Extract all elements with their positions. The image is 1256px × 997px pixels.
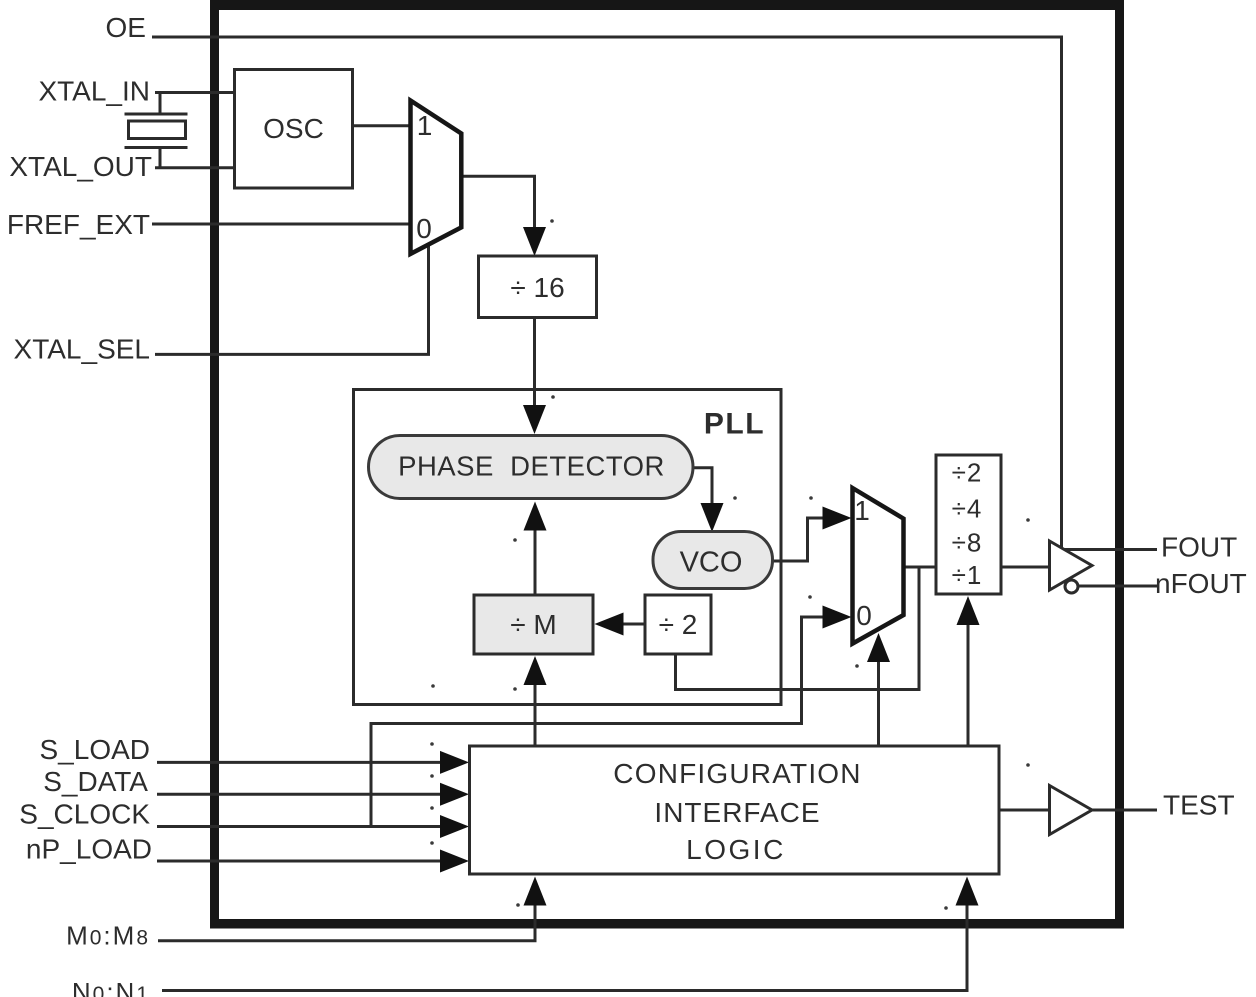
svg-text:÷8: ÷8 (952, 528, 983, 558)
svg-text:÷ 2: ÷ 2 (659, 609, 698, 640)
svg-text:LOGIC: LOGIC (686, 834, 786, 865)
svg-text:INTERFACE: INTERFACE (654, 797, 820, 828)
svg-text:÷4: ÷4 (952, 494, 983, 524)
svg-text:XTAL_SEL: XTAL_SEL (14, 334, 150, 365)
svg-text:nP_LOAD: nP_LOAD (26, 834, 152, 865)
svg-text:S_DATA: S_DATA (43, 766, 148, 797)
svg-text:÷2: ÷2 (952, 458, 983, 488)
svg-text:M0:M8: M0:M8 (66, 921, 150, 951)
svg-text:0: 0 (416, 213, 432, 244)
svg-text:PHASE DETECTOR: PHASE DETECTOR (398, 451, 665, 482)
svg-text:FREF_EXT: FREF_EXT (7, 209, 150, 240)
svg-text:1: 1 (417, 110, 433, 141)
svg-text:÷ 16: ÷ 16 (510, 272, 564, 303)
svg-text:VCO: VCO (680, 547, 743, 579)
svg-text:OSC: OSC (263, 113, 324, 144)
svg-text:XTAL_OUT: XTAL_OUT (9, 151, 152, 182)
svg-text:PLL: PLL (704, 408, 765, 441)
svg-text:TEST: TEST (1163, 790, 1235, 821)
svg-text:S_LOAD: S_LOAD (40, 734, 151, 765)
svg-text:FOUT: FOUT (1161, 532, 1237, 563)
svg-text:S_CLOCK: S_CLOCK (19, 799, 150, 830)
svg-text:1: 1 (854, 495, 870, 526)
svg-text:÷1: ÷1 (952, 560, 983, 590)
svg-text:nFOUT: nFOUT (1155, 568, 1247, 599)
svg-text:N0:N1: N0:N1 (72, 977, 150, 997)
svg-text:OE: OE (106, 12, 146, 43)
svg-text:÷ M: ÷ M (510, 609, 556, 640)
svg-text:0: 0 (856, 600, 872, 631)
svg-text:CONFIGURATION: CONFIGURATION (613, 758, 861, 789)
svg-text:XTAL_IN: XTAL_IN (38, 76, 150, 107)
